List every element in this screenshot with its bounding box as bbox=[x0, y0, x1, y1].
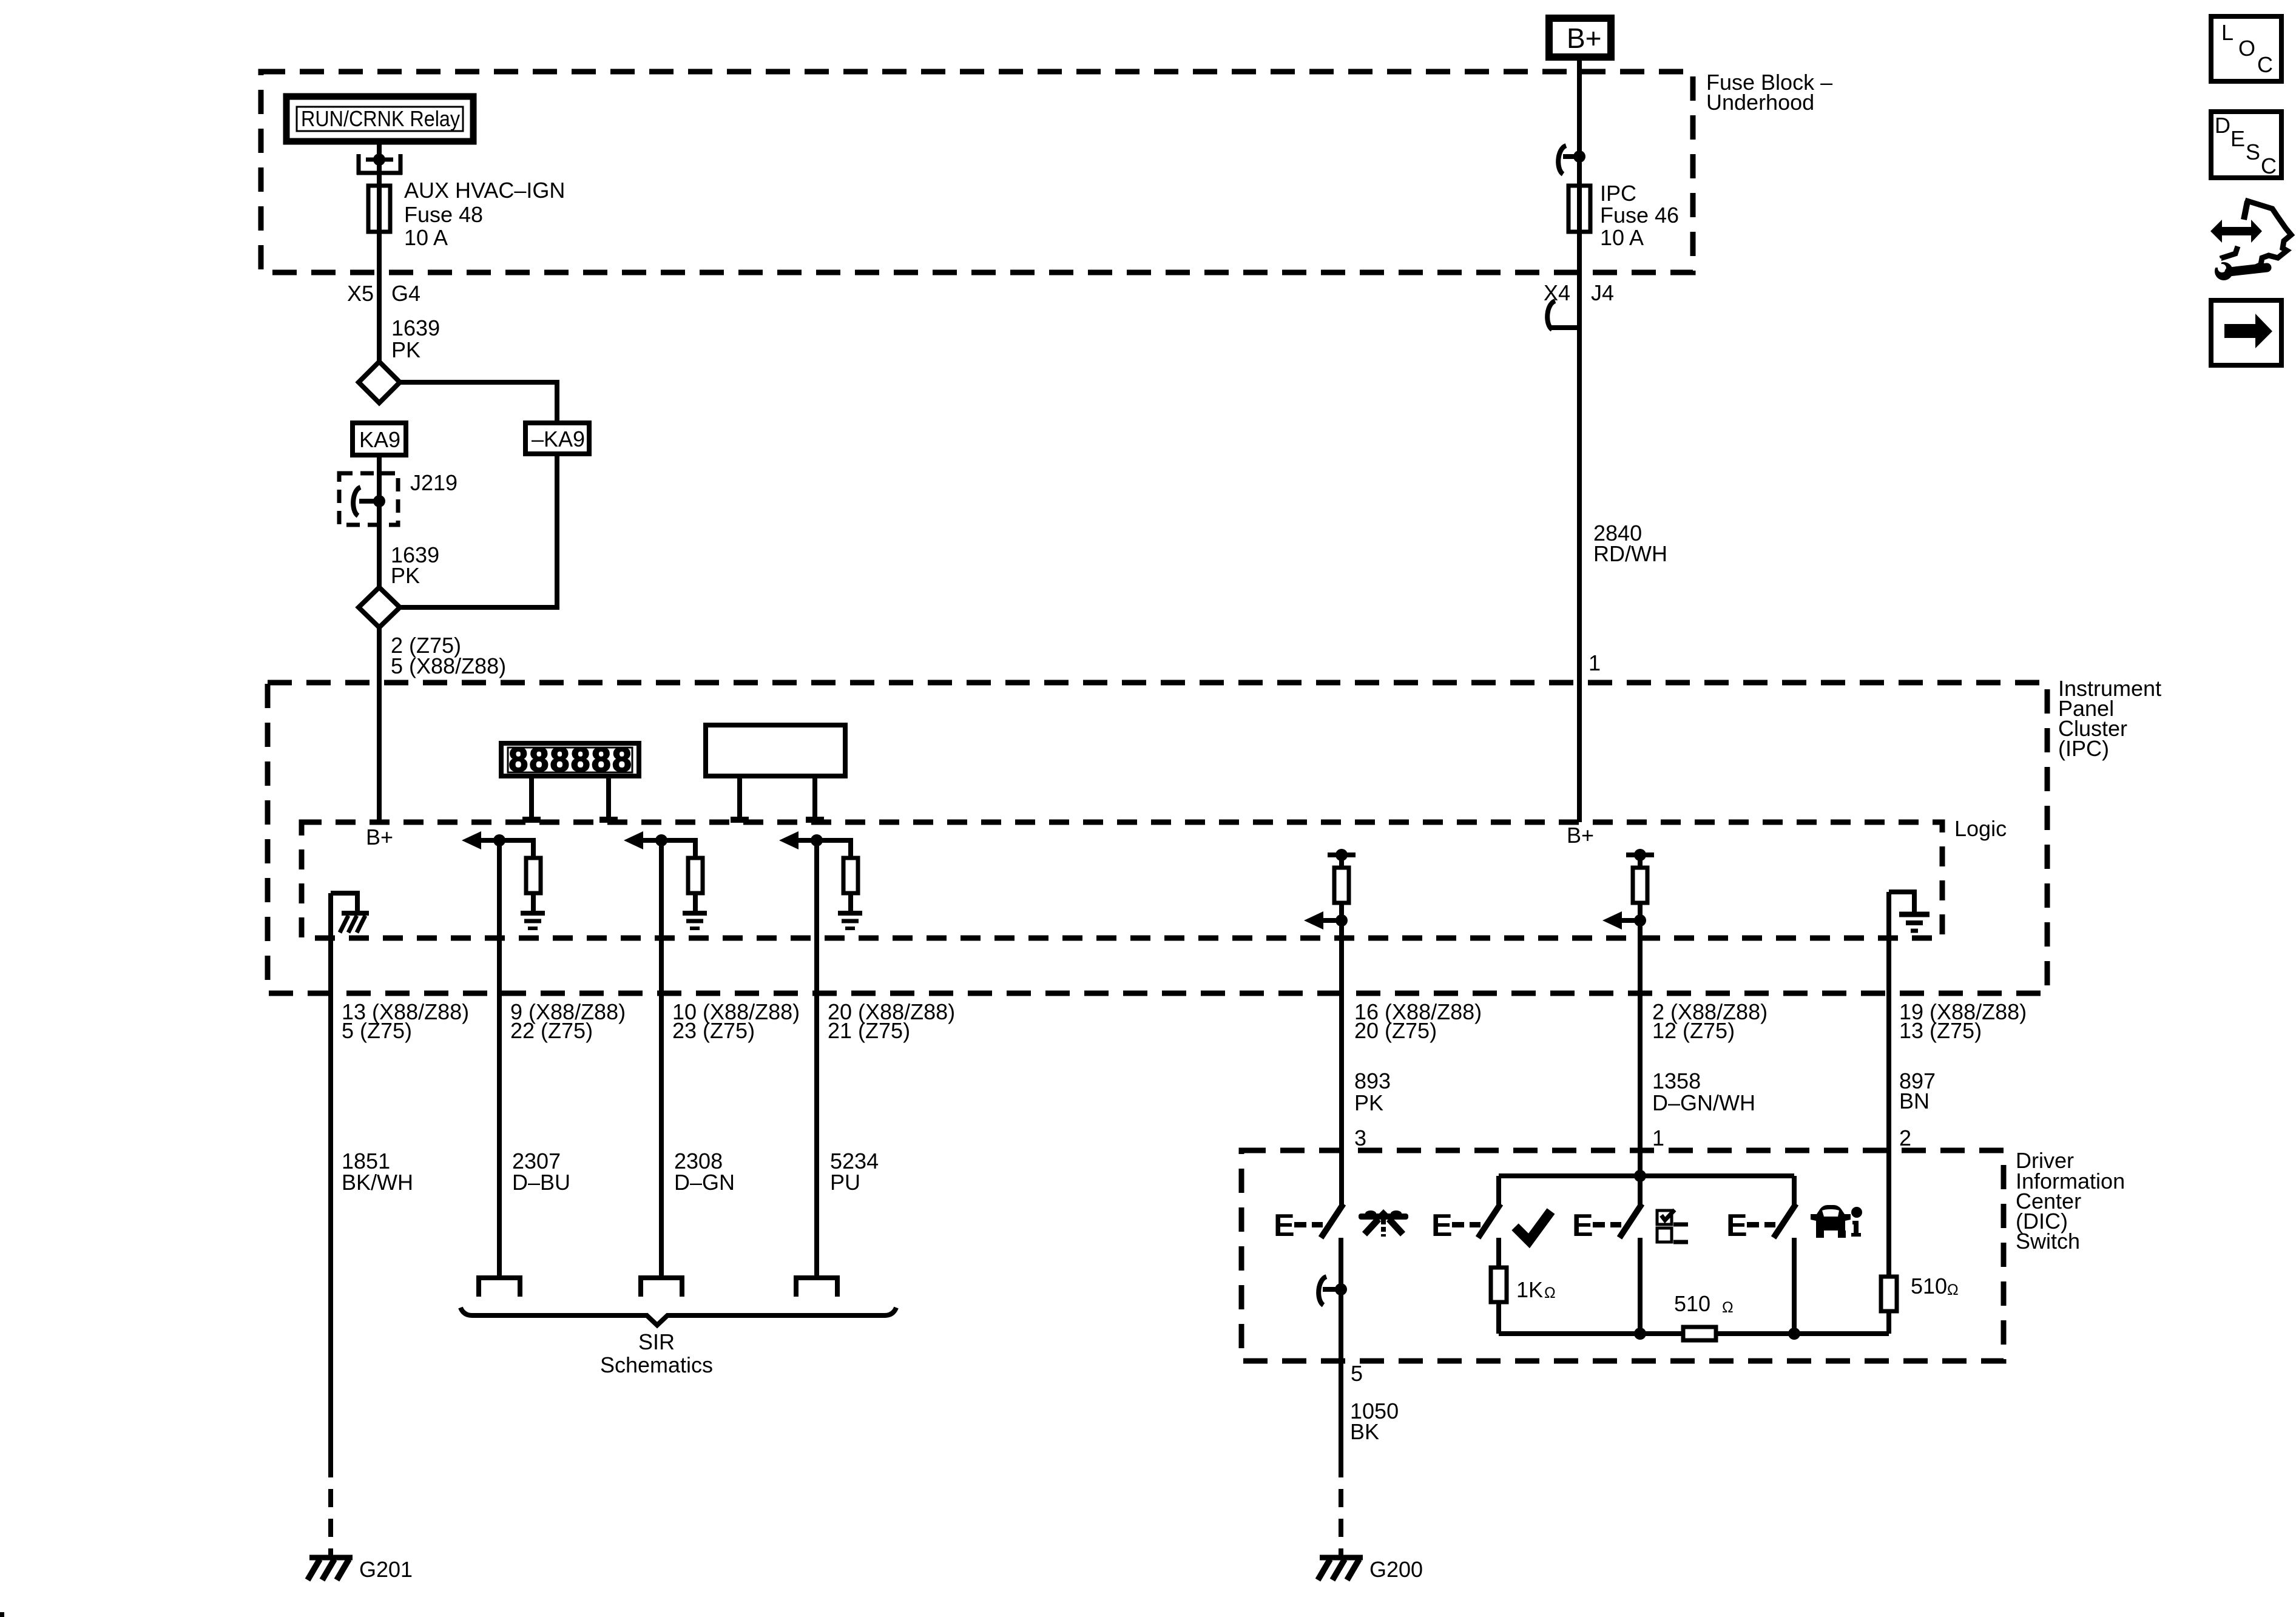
svg-text:13 (Z75): 13 (Z75) bbox=[1899, 1018, 1982, 1043]
wire pin 10 to SIR bbox=[659, 840, 664, 1275]
signal arrow pin 16 bbox=[1304, 911, 1348, 930]
pin labels 13 (X88/Z88) 5 (Z75) bbox=[342, 999, 469, 1043]
wire label 897 BN bbox=[1899, 1068, 1936, 1113]
wire label 893 PK bbox=[1354, 1068, 1391, 1115]
icon menu checklist bbox=[1657, 1210, 1688, 1242]
wire label 1851 BK/WH bbox=[342, 1149, 413, 1195]
label Driver Information Center (DIC) Switch bbox=[2016, 1148, 2125, 1254]
signal arrow and pull-down pin 20 bbox=[779, 831, 851, 858]
DIC dashed box bbox=[1241, 1150, 2004, 1361]
svg-text:BN: BN bbox=[1899, 1089, 1930, 1113]
logic dashed box bbox=[302, 822, 1942, 938]
resistor 1K bbox=[1491, 1268, 1556, 1302]
stray mark bottom-left corner bbox=[0, 1612, 4, 1617]
svg-text:1: 1 bbox=[1589, 650, 1601, 675]
junction rail from pin 1 bbox=[1499, 1170, 1794, 1207]
wire dashed segment to G200 bbox=[1339, 1489, 1343, 1556]
svg-text:PK: PK bbox=[391, 337, 420, 362]
svg-text:–KA9: –KA9 bbox=[532, 427, 585, 451]
signal arrow and pull-down pin 9 bbox=[462, 831, 533, 858]
svg-text:Fuse 46: Fuse 46 bbox=[1600, 203, 1679, 228]
wire KA9 down through J219 bbox=[377, 457, 382, 587]
svg-text:Ω: Ω bbox=[1947, 1281, 1959, 1298]
svg-text:AUX HVAC–IGN: AUX HVAC–IGN bbox=[404, 178, 565, 203]
wire label 2308 D-GN bbox=[674, 1149, 735, 1195]
signal arrow and pull-down pin 10 bbox=[624, 831, 695, 858]
svg-text:L: L bbox=[2221, 20, 2234, 45]
ground (pin 10 pull-down) bbox=[683, 895, 707, 928]
svg-text:1: 1 bbox=[1652, 1126, 1664, 1150]
IPC dashed box bbox=[268, 683, 2047, 993]
connector labels X4 J4 bbox=[1544, 280, 1614, 305]
svg-text:Logic: Logic bbox=[1954, 816, 2007, 841]
svg-text:2: 2 bbox=[1899, 1126, 1911, 1150]
switch 4 (vehicle info) bbox=[1726, 1204, 1796, 1243]
box KA9 bbox=[353, 423, 406, 455]
icon trip (fan/tree) bbox=[1359, 1209, 1408, 1237]
resistor 510 (vertical) bbox=[1881, 1274, 1959, 1311]
wire 510 to rail bbox=[1886, 1311, 1891, 1334]
pin labels 10 (X88/Z88) 23 (Z75) bbox=[672, 999, 800, 1043]
svg-text:PU: PU bbox=[830, 1170, 860, 1195]
wire pin 13 to G201 bbox=[328, 893, 333, 1477]
signal arrow pin 2 bbox=[1602, 911, 1646, 930]
B+ tap pin 2: T-bar with junction bbox=[1626, 849, 1654, 868]
svg-text:X5: X5 bbox=[347, 281, 374, 306]
SIR connector stub (pin 10) bbox=[641, 1278, 682, 1297]
svg-text:Ω: Ω bbox=[1722, 1299, 1734, 1316]
module legs bbox=[731, 778, 824, 822]
svg-text:22 (Z75): 22 (Z75) bbox=[510, 1018, 593, 1043]
wire pin 9 to SIR bbox=[497, 840, 502, 1275]
pin labels 2 (X88/Z88) 12 (Z75) bbox=[1652, 999, 1768, 1043]
svg-text:D: D bbox=[2215, 113, 2230, 138]
clip connector below switch 1 bbox=[1319, 1277, 1347, 1305]
ground tap pin 13: elbow to chassis ground inside logic box bbox=[331, 893, 369, 933]
splice diamond (lower) bbox=[359, 587, 400, 627]
svg-text:23 (Z75): 23 (Z75) bbox=[672, 1018, 755, 1043]
wire -KA9 down to splice bbox=[400, 456, 557, 607]
wire pin 16 to DIC switch 1 bbox=[1339, 903, 1344, 1207]
wire label 5234 PU bbox=[830, 1149, 879, 1195]
odometer display module with 888888 bbox=[501, 740, 639, 778]
pin labels 19 (X88/Z88) 13 (Z75) bbox=[1899, 999, 2027, 1043]
svg-text:5: 5 bbox=[1351, 1361, 1363, 1386]
svg-text:Fuse 48: Fuse 48 bbox=[404, 202, 483, 227]
wire splice down to IPC B+ bbox=[377, 627, 382, 822]
wire switch 1 to clip bbox=[1339, 1238, 1343, 1361]
svg-text:KA9: KA9 bbox=[359, 427, 400, 452]
SIR connector stub (pin 9) bbox=[479, 1278, 520, 1297]
svg-text:J4: J4 bbox=[1591, 280, 1614, 305]
svg-text:G200: G200 bbox=[1369, 1557, 1423, 1582]
clip connector X4/J4 bbox=[1547, 301, 1579, 329]
B+ tap pin 16: T-bar with junction bbox=[1328, 849, 1356, 868]
svg-text:5 (Z75): 5 (Z75) bbox=[342, 1018, 412, 1043]
svg-text:X4: X4 bbox=[1544, 280, 1570, 305]
wire switch 4 to rail bbox=[1792, 1238, 1797, 1334]
svg-text:1358: 1358 bbox=[1652, 1068, 1701, 1093]
wire relay to fuse 48 bbox=[377, 144, 382, 362]
svg-text:PK: PK bbox=[391, 563, 420, 588]
pin labels 2 (Z75) 5 (X88/Z88) bbox=[391, 633, 506, 678]
svg-text:IPC: IPC bbox=[1600, 181, 1636, 206]
clip connector at fuse 46 top bbox=[1558, 146, 1585, 174]
splice diamond (upper) bbox=[359, 362, 400, 403]
connector J219 dashed box with clip bbox=[339, 470, 458, 525]
indicator module box (blank) bbox=[706, 725, 845, 776]
resistor (pin 2 pull-up) bbox=[1633, 868, 1647, 903]
wire label 1050 BK bbox=[1350, 1399, 1399, 1444]
svg-text:E: E bbox=[1572, 1208, 1593, 1243]
svg-text:RUN/CRNK Relay: RUN/CRNK Relay bbox=[301, 106, 460, 131]
svg-text:888888: 888888 bbox=[509, 740, 633, 778]
svg-text:D–GN: D–GN bbox=[674, 1170, 735, 1195]
fuse 46 IPC 10A bbox=[1568, 181, 1679, 250]
svg-text:Ω: Ω bbox=[1544, 1284, 1556, 1301]
pin labels 20 (X88/Z88) 21 (Z75) bbox=[828, 999, 955, 1043]
svg-text:D–BU: D–BU bbox=[512, 1170, 570, 1195]
switch 2 (check) bbox=[1431, 1204, 1501, 1243]
svg-text:E: E bbox=[2230, 126, 2245, 151]
resistor (pin 20 pull-down) bbox=[843, 858, 858, 893]
wire label 1639 PK (upper) bbox=[391, 316, 440, 362]
svg-text:21 (Z75): 21 (Z75) bbox=[828, 1018, 910, 1043]
icon checkmark bbox=[1515, 1211, 1551, 1241]
wire pin 19 to DIC resistor bbox=[1886, 892, 1891, 1277]
svg-text:E: E bbox=[1726, 1208, 1747, 1243]
ground G200 bbox=[1318, 1557, 1423, 1582]
ground G201 bbox=[308, 1557, 413, 1582]
wire B+ feed from fuse block to IPC (right) bbox=[1577, 61, 1582, 822]
svg-text:893: 893 bbox=[1354, 1068, 1391, 1093]
svg-text:D–GN/WH: D–GN/WH bbox=[1652, 1090, 1755, 1115]
wire switch 2 to 1K resistor bbox=[1496, 1238, 1501, 1268]
relay box RUN/CRNK Relay bbox=[286, 96, 473, 141]
wire label 2840 RD/WH bbox=[1593, 521, 1667, 566]
brace SIR Schematics bbox=[461, 1308, 896, 1377]
wire dashed segment to G201 bbox=[328, 1489, 333, 1556]
SIR connector stub (pin 20) bbox=[796, 1278, 837, 1297]
icon box LOC (top right) bbox=[2211, 16, 2281, 81]
pin labels 16 (X88/Z88) 20 (Z75) bbox=[1354, 999, 1482, 1043]
box -KA9 bbox=[525, 423, 589, 454]
svg-text:O: O bbox=[2238, 36, 2255, 61]
fuse 48 AUX HVAC-IGN 10A bbox=[368, 178, 565, 250]
wire pin 20 to SIR bbox=[814, 840, 819, 1275]
svg-text:BK/WH: BK/WH bbox=[342, 1170, 413, 1195]
svg-text:E: E bbox=[1431, 1208, 1453, 1243]
wire splice to -KA9 branch bbox=[400, 382, 557, 420]
pin labels 9 (X88/Z88) 22 (Z75) bbox=[510, 999, 626, 1043]
label Fuse Block - Underhood bbox=[1706, 70, 1832, 115]
svg-text:1K: 1K bbox=[1516, 1277, 1543, 1302]
wire switch 3 to rail bbox=[1638, 1238, 1643, 1334]
svg-text:BK: BK bbox=[1350, 1419, 1379, 1444]
ground (pin 20 pull-down) bbox=[838, 895, 862, 928]
icon box right-arrow bbox=[2211, 300, 2281, 365]
svg-text:PK: PK bbox=[1354, 1090, 1383, 1115]
connector terminal below relay bbox=[357, 154, 402, 175]
svg-text:B+: B+ bbox=[366, 825, 393, 849]
connector labels X5 G4 bbox=[347, 281, 420, 306]
label Instrument Panel Cluster (IPC) bbox=[2058, 676, 2161, 761]
svg-text:G201: G201 bbox=[359, 1557, 413, 1582]
svg-text:B+: B+ bbox=[1567, 22, 1602, 54]
svg-text:20 (Z75): 20 (Z75) bbox=[1354, 1018, 1437, 1043]
svg-text:3: 3 bbox=[1354, 1126, 1366, 1150]
fuse block underhood dashed box bbox=[261, 72, 1693, 272]
svg-text:5 (X88/Z88): 5 (X88/Z88) bbox=[391, 653, 506, 678]
power symbol B+ (top) bbox=[1549, 18, 1611, 57]
wire pin 2 to DIC switch 3 bbox=[1638, 903, 1643, 1207]
svg-text:510: 510 bbox=[1911, 1274, 1947, 1298]
svg-text:C: C bbox=[2261, 154, 2277, 178]
svg-text:E: E bbox=[1274, 1208, 1295, 1243]
svg-text:RD/WH: RD/WH bbox=[1593, 541, 1667, 566]
svg-text:10 A: 10 A bbox=[1600, 225, 1644, 250]
ground tap pin 19: elbow to earth ground inside logic box bbox=[1889, 892, 1930, 931]
wire label 2307 D-BU bbox=[512, 1149, 570, 1195]
icon car-diagnostic with double arrow and wrench bbox=[2210, 200, 2291, 280]
bottom rail with junctions bbox=[1499, 1328, 1889, 1340]
wire 1K to rail bbox=[1496, 1302, 1501, 1334]
wire label 1639 PK (lower) bbox=[391, 542, 439, 588]
svg-text:510: 510 bbox=[1674, 1291, 1710, 1316]
svg-text:12 (Z75): 12 (Z75) bbox=[1652, 1018, 1735, 1043]
display legs bbox=[522, 778, 618, 822]
svg-text:B+: B+ bbox=[1567, 823, 1594, 848]
ground (pin 9 pull-down) bbox=[521, 895, 545, 928]
icon car with i bbox=[1811, 1205, 1862, 1238]
svg-text:Underhood: Underhood bbox=[1706, 90, 1814, 115]
svg-text:SIR: SIR bbox=[638, 1329, 675, 1354]
resistor (pin 16 pull-up) bbox=[1334, 868, 1349, 903]
svg-text:Switch: Switch bbox=[2016, 1229, 2080, 1254]
svg-text:(IPC): (IPC) bbox=[2058, 736, 2109, 761]
icon box DESC bbox=[2211, 112, 2281, 178]
svg-text:J219: J219 bbox=[410, 470, 458, 495]
wire to G200 bbox=[1339, 1361, 1343, 1477]
resistor 510 (horizontal) bbox=[1674, 1291, 1734, 1340]
resistor (pin 10 pull-down) bbox=[688, 858, 703, 893]
svg-text:C: C bbox=[2257, 52, 2273, 77]
svg-text:S: S bbox=[2246, 140, 2260, 164]
resistor (pin 9 pull-down) bbox=[526, 858, 541, 893]
svg-text:10 A: 10 A bbox=[404, 225, 448, 250]
wire label 1358 D-GN/WH bbox=[1652, 1068, 1755, 1115]
svg-text:Schematics: Schematics bbox=[600, 1352, 713, 1377]
svg-text:G4: G4 bbox=[391, 281, 420, 306]
svg-text:1639: 1639 bbox=[391, 316, 440, 340]
switch 3 (menu) bbox=[1572, 1204, 1642, 1243]
switch 1 (trip) bbox=[1274, 1204, 1343, 1243]
